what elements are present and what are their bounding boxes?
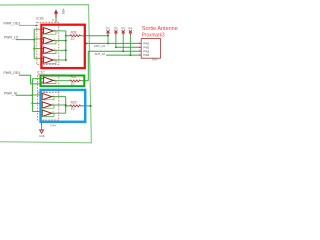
wire TP1 drop xyxy=(107,36,109,44)
node ANT_LO start xyxy=(85,42,87,44)
pin stubs op-amp c113.2 xyxy=(40,111,42,113)
pin 3 xyxy=(139,50,141,52)
node HI bus junction xyxy=(31,94,33,96)
svg-text:GND: GND xyxy=(39,134,45,138)
wire PWR_OE4 xyxy=(19,75,42,84)
svg-text:10: 10 xyxy=(71,107,75,111)
wire TP4 drop xyxy=(129,35,131,55)
wire U2D feedback xyxy=(41,113,54,116)
testpoint TP2 xyxy=(114,30,117,35)
wire LO input bus xyxy=(33,29,35,58)
pin stubs op-amp c40.6 xyxy=(41,38,43,40)
svg-text:SMA: SMA xyxy=(152,58,158,62)
wire R29 out to border xyxy=(81,105,85,107)
wire U2A feedback xyxy=(42,80,56,83)
svg-text:2: 2 xyxy=(139,46,140,48)
node HI collector junctions xyxy=(65,104,67,106)
svg-text:ANT_HI: ANT_HI xyxy=(95,52,106,56)
wire U2A out xyxy=(53,80,70,82)
svg-text:3: 3 xyxy=(44,47,45,49)
wire U1C feedback xyxy=(42,50,56,53)
pin stubs op-amp c50.3 xyxy=(41,48,43,50)
svg-text:1: 1 xyxy=(54,49,55,51)
svg-text:7: 7 xyxy=(54,79,55,81)
svg-text:1: 1 xyxy=(54,39,55,41)
svg-text:IC1B: IC1B xyxy=(36,17,44,21)
svg-text:1: 1 xyxy=(54,29,55,31)
node TP2 junction xyxy=(115,46,117,48)
highlight box blue (HI driver section) xyxy=(41,90,86,122)
svg-text:7: 7 xyxy=(53,103,54,105)
wire U1B feedback xyxy=(42,41,56,44)
wire U1C out xyxy=(53,49,66,51)
pin IC1 OE3 xyxy=(35,24,38,26)
testpoint TP4 xyxy=(129,30,132,35)
wire HI input bus xyxy=(31,79,33,112)
svg-text:PWR_OE4: PWR_OE4 xyxy=(4,71,21,75)
svg-text:TP4: TP4 xyxy=(128,28,133,31)
sheet border xyxy=(0,5,91,143)
resistor R31 xyxy=(70,80,81,82)
pin 2 xyxy=(139,46,141,48)
svg-text:8: 8 xyxy=(53,112,54,114)
wire op-amp7 +in xyxy=(32,111,42,113)
wire PWR_OE3 xyxy=(19,24,35,26)
wire op-amp2 +in xyxy=(34,38,43,40)
wire to R28 xyxy=(66,35,70,37)
svg-text:ANT_L0: ANT_L0 xyxy=(94,44,105,48)
svg-text:Sortie Antenne: Sortie Antenne xyxy=(142,26,178,32)
svg-text:3: 3 xyxy=(44,57,45,59)
wire op-amp6 +in xyxy=(32,102,42,104)
highlight box green (middle section) xyxy=(41,76,85,87)
node TP1 junction xyxy=(107,42,109,44)
wire HI output collector xyxy=(65,97,67,114)
svg-text:R29: R29 xyxy=(71,100,77,104)
pin 1 xyxy=(139,42,141,44)
svg-text:PIN4: PIN4 xyxy=(143,53,149,57)
op-amp U2D xyxy=(42,110,51,116)
svg-text:+5V: +5V xyxy=(61,8,65,15)
IC2 dashed outline xyxy=(38,75,59,120)
testpoint TP3 xyxy=(122,30,125,35)
wire PWR_LO xyxy=(16,39,35,41)
wire op-amp3 +in xyxy=(34,48,43,50)
node border junction xyxy=(90,105,92,107)
svg-text:TP2: TP2 xyxy=(114,28,119,31)
wire power pin xyxy=(55,18,57,23)
svg-text:PIN2: PIN2 xyxy=(143,45,149,49)
wire U2B feedback xyxy=(41,97,54,100)
svg-text:3: 3 xyxy=(139,50,140,52)
pin 4 xyxy=(139,54,141,56)
wire ANT_LO xyxy=(85,42,139,44)
op-amp U1A xyxy=(44,28,54,35)
svg-text:PIN3: PIN3 xyxy=(143,49,149,53)
wire U2A out to border xyxy=(81,80,89,82)
svg-text:PWR_HI: PWR_HI xyxy=(4,91,17,95)
pin stubs op-amp c60.0 xyxy=(41,57,43,59)
svg-text:TP3: TP3 xyxy=(121,28,126,31)
svg-text:PIN1: PIN1 xyxy=(143,42,149,46)
wire U2C feedback xyxy=(41,105,54,108)
svg-text:4: 4 xyxy=(139,54,140,56)
op-amp U1B xyxy=(44,37,54,44)
pin stubs op-amp U2A xyxy=(41,78,43,80)
wire pin2 xyxy=(116,46,139,48)
wire LO output collector xyxy=(65,31,67,60)
node TP4 junction xyxy=(129,54,131,56)
highlight box red (LO driver section) xyxy=(41,25,84,68)
IC1 dashed outline xyxy=(37,22,59,64)
svg-text:1: 1 xyxy=(54,58,55,60)
op-amp U1C xyxy=(44,47,54,54)
op-amp U1D xyxy=(44,57,54,64)
pin stubs op-amp c30.9 xyxy=(41,28,43,30)
svg-text:7244: 7244 xyxy=(50,123,57,127)
pin stubs op-amp c96.6 xyxy=(40,94,42,96)
wire op-amp2A +in xyxy=(32,78,43,80)
wire R28 to TP xyxy=(81,35,109,37)
connector J1 xyxy=(141,39,160,59)
wire PWR_HI xyxy=(16,94,33,96)
wire U2C out xyxy=(52,104,66,106)
node LO bus junction xyxy=(33,39,35,41)
wire to R29 xyxy=(66,105,70,107)
svg-text:3: 3 xyxy=(44,38,45,40)
svg-text:TP1: TP1 xyxy=(106,28,111,31)
resistor R29 xyxy=(70,105,81,107)
resistor R28 xyxy=(70,35,81,37)
svg-text:1: 1 xyxy=(139,42,140,44)
svg-text:IC1C: IC1C xyxy=(37,70,45,74)
svg-text:1: 1 xyxy=(53,95,54,97)
wire TP3 drop xyxy=(122,35,124,51)
wire U1A out xyxy=(53,30,66,32)
wire TP2 drop xyxy=(115,35,117,47)
testpoint TP1 xyxy=(107,30,110,35)
wire U1A feedback xyxy=(42,31,56,34)
wire ANT_HI xyxy=(88,51,139,80)
wire op-amp4 +in xyxy=(34,57,43,59)
node R28 wire end xyxy=(107,35,109,37)
op-amp U2B xyxy=(42,93,51,99)
pin stubs op-amp c105.0 xyxy=(40,102,42,104)
IC2 unit divider dashed xyxy=(38,92,59,94)
svg-text:PWR_OE3: PWR_OE3 xyxy=(4,22,21,26)
ground xyxy=(39,122,45,138)
wire op-amp1 +in xyxy=(34,28,43,30)
wire op-amp5 +in xyxy=(32,94,42,96)
wire pin4 xyxy=(106,54,139,56)
op-amp U2A xyxy=(44,77,54,84)
svg-text:3: 3 xyxy=(44,28,45,30)
svg-text:R28: R28 xyxy=(71,30,77,34)
wire U1B out xyxy=(53,40,66,42)
node collector junctions xyxy=(65,35,67,37)
svg-text:10: 10 xyxy=(71,37,75,41)
wire U2B out xyxy=(52,96,66,98)
power +5V symbol xyxy=(54,8,65,17)
wire U2D out xyxy=(52,112,66,114)
wire U1D feedback xyxy=(42,60,56,63)
wire U1D out xyxy=(53,59,66,61)
svg-text:Proxmark3: Proxmark3 xyxy=(142,33,165,39)
op-amp U2C xyxy=(42,102,51,108)
node TP3 junction xyxy=(122,50,124,52)
